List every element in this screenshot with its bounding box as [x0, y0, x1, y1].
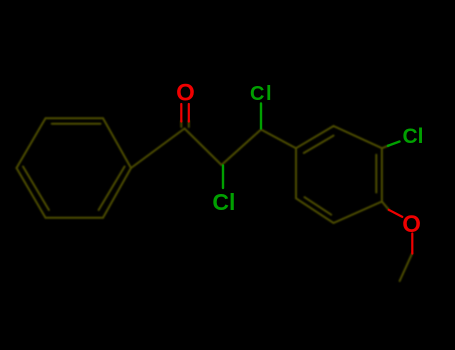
svg-text:Cl: Cl — [212, 189, 235, 215]
bond C3 to Cl green — [260, 104, 262, 129]
left phenyl ring outline — [17, 118, 132, 218]
left ring double bond right-bottom edge — [99, 167, 125, 211]
bond ring to Cl green half — [388, 142, 400, 146]
bond ring to Cl label olive half — [382, 146, 388, 148]
bond O-CH3 red half — [411, 234, 413, 254]
bond C1-C2 — [185, 129, 222, 166]
bond ring to methoxy O red half — [389, 210, 403, 217]
svg-text:Cl: Cl — [403, 125, 424, 148]
right ring double bond bottom-left edge — [305, 197, 332, 215]
bond C2-C3 — [222, 130, 262, 166]
C=O double bond olive tails — [180, 121, 182, 127]
right benzene ring outline — [296, 126, 382, 223]
left ring double bond left-bottom edge — [23, 167, 49, 211]
svg-text:O: O — [402, 211, 421, 238]
svg-text:O: O — [176, 80, 195, 107]
right ring double bond top-left edge — [304, 136, 334, 153]
C=O double bond red lines — [180, 104, 182, 122]
bond ring to carbonyl C1 — [131, 129, 185, 169]
bond C3 to right ring — [261, 130, 296, 149]
bond O-CH3 olive half — [400, 254, 413, 282]
bond ring to methoxy O olive half — [382, 202, 389, 210]
right ring double bond right edge — [375, 155, 377, 193]
svg-text:Cl: Cl — [250, 83, 273, 105]
left ring double bond top edge — [52, 123, 101, 125]
bond C2 to Cl green — [222, 166, 224, 189]
